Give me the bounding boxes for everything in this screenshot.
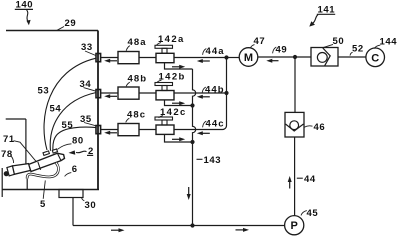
- connector 35: [96, 126, 101, 134]
- stand post: [25, 119, 27, 166]
- gun top knob rear: [52, 149, 57, 153]
- label 55: [62, 120, 74, 131]
- hose 6 outer: [27, 163, 58, 179]
- valve 142a cap: [155, 45, 173, 48]
- row c wire 142c to trunk bend: [174, 129, 223, 131]
- trunk vertical 44a-c: [223, 58, 227, 130]
- row a wire 142a to trunk: [174, 57, 227, 59]
- label 52: [352, 43, 364, 54]
- wire trunk to motor M: [227, 57, 240, 59]
- row a wall arrow: [104, 59, 117, 63]
- valve 50 seat chevron: [323, 48, 330, 66]
- label 80: [72, 135, 84, 146]
- leader 142a: [157, 43, 161, 46]
- label 6: [72, 164, 78, 175]
- svg-text:44: 44: [304, 174, 316, 185]
- leader 144: [374, 45, 380, 48]
- svg-text:46: 46: [314, 122, 326, 133]
- leader 71: [14, 141, 37, 162]
- vertical wire 44 valve 46 to pump P: [294, 137, 296, 216]
- valve 142b body: [156, 91, 174, 100]
- return b arrow: [172, 101, 185, 105]
- booth right wall: [97, 31, 99, 190]
- leader 34: [84, 88, 97, 92]
- junction dot 143 bottom: [190, 223, 194, 227]
- row b wire 142b to trunk: [174, 92, 227, 94]
- svg-text:44c: 44c: [206, 118, 225, 129]
- label 35: [80, 114, 92, 125]
- label 47: [254, 36, 266, 47]
- underline 2: [87, 154, 93, 156]
- svg-text:52: 52: [352, 43, 364, 54]
- label 34: [80, 79, 92, 90]
- gun tip ball: [4, 171, 9, 176]
- svg-text:144: 144: [380, 36, 398, 47]
- leader 45: [301, 211, 307, 216]
- cable 53: [44, 58, 95, 150]
- wire M to valve 50: [258, 56, 311, 58]
- svg-text:142a: 142a: [158, 34, 185, 45]
- label 45: [307, 208, 319, 219]
- underline 140: [15, 8, 33, 10]
- drain wire pedestal to bottom pipe: [72, 198, 74, 226]
- leader 48a: [126, 46, 130, 51]
- svg-text:30: 30: [85, 200, 97, 211]
- label 142a: [158, 34, 185, 45]
- leader 44b: [202, 87, 206, 93]
- vertical wire node49 to valve 46: [294, 57, 296, 112]
- junction dot return c: [190, 140, 194, 144]
- stand left edge: [1, 168, 3, 197]
- letter M: [244, 52, 253, 64]
- leader 5: [43, 180, 45, 198]
- leader 50: [323, 44, 333, 47]
- label 53: [38, 85, 50, 96]
- leader 48b: [126, 82, 130, 86]
- bottom pipe arrow 2: [236, 228, 250, 232]
- dash 143: [197, 158, 203, 160]
- return 142b down-right: [165, 100, 193, 106]
- return 142c down-right: [165, 134, 193, 142]
- leader 46: [304, 126, 312, 127]
- cable 54: [50, 93, 96, 151]
- bottom supply pipe: [73, 225, 285, 227]
- hose 6 drop to floor: [26, 178, 28, 190]
- valve 142c cap: [155, 117, 173, 120]
- arrow from 140 to booth: [26, 10, 30, 25]
- junction dot return b: [190, 103, 194, 107]
- svg-text:29: 29: [65, 18, 77, 29]
- label 50: [333, 36, 345, 47]
- connector 34: [96, 90, 101, 98]
- box 48b: [118, 87, 139, 99]
- wire 52 valve 50 to C: [338, 56, 366, 58]
- svg-text:143: 143: [204, 155, 222, 166]
- label 140: [16, 0, 34, 11]
- gun body divider: [38, 162, 41, 170]
- label 5: [40, 199, 46, 210]
- label 48b: [128, 73, 148, 84]
- row c trunk arrow: [197, 131, 210, 135]
- label 142b: [159, 71, 186, 82]
- svg-text:54: 54: [50, 103, 62, 114]
- label 141: [318, 5, 336, 16]
- leader 29: [57, 27, 64, 31]
- label 44c: [206, 118, 225, 129]
- label 44: [304, 174, 316, 185]
- junction dot trunk row a: [224, 55, 228, 59]
- svg-text:55: 55: [62, 120, 74, 131]
- label 46: [314, 122, 326, 133]
- dash 44: [297, 177, 303, 179]
- letter P: [291, 220, 298, 232]
- valve 142a body: [156, 53, 174, 62]
- svg-text:142c: 142c: [160, 107, 187, 118]
- label 48a: [128, 37, 147, 48]
- arrow from 141 pointing down-left: [309, 15, 318, 27]
- row b wire 48b to 142b: [139, 92, 156, 94]
- svg-text:142b: 142b: [159, 71, 186, 82]
- row c wall arrow: [104, 131, 117, 135]
- label 143: [204, 155, 222, 166]
- leader 47: [251, 45, 255, 48]
- valve 142b cap: [155, 83, 173, 86]
- label 49: [276, 44, 288, 55]
- label 44b: [205, 84, 225, 95]
- label 29: [65, 18, 77, 29]
- compressor C circle 144: [366, 48, 385, 67]
- leader 142b: [157, 80, 161, 82]
- label 44a: [206, 46, 225, 57]
- valve 142c body: [156, 125, 174, 134]
- svg-text:78: 78: [1, 149, 13, 160]
- check valve 50 box: [311, 48, 338, 67]
- label 54: [50, 103, 62, 114]
- leader 142c: [159, 116, 163, 118]
- label 71: [3, 134, 15, 145]
- gun rear bevel line: [57, 153, 61, 160]
- up arrow on wire 44: [288, 176, 292, 189]
- row c wire wall to 48c: [101, 129, 119, 131]
- box 48c: [118, 124, 139, 136]
- letter C: [371, 52, 379, 64]
- svg-text:49: 49: [276, 44, 288, 55]
- stand shelf: [6, 118, 26, 120]
- row c wire 48c to 142c: [139, 129, 156, 131]
- svg-text:48b: 48b: [128, 73, 148, 84]
- svg-text:53: 53: [38, 85, 50, 96]
- leader 33: [85, 51, 96, 56]
- junction dot trunk row b: [224, 91, 228, 95]
- gun nozzle tip box 78: [7, 166, 14, 176]
- return 142a down-right: [165, 63, 193, 69]
- svg-text:45: 45: [307, 208, 319, 219]
- row b trunk arrow: [197, 95, 210, 99]
- svg-text:47: 47: [254, 36, 266, 47]
- pump P circle 45: [285, 216, 304, 235]
- svg-text:80: 80: [72, 135, 84, 146]
- svg-text:50: 50: [333, 36, 345, 47]
- booth top wall 29: [6, 30, 98, 32]
- row a trunk arrow: [197, 59, 210, 63]
- leader 44a: [203, 49, 207, 55]
- valve 46 seat chevron: [286, 124, 304, 131]
- booth bottom wall: [3, 189, 100, 191]
- underline 141: [317, 13, 335, 15]
- gun nozzle: [12, 164, 30, 175]
- svg-text:M: M: [244, 52, 253, 64]
- leader 35: [84, 123, 96, 126]
- check valve 46 box: [285, 112, 304, 137]
- valve 142a stem: [162, 48, 167, 53]
- return line 143 with hops: [193, 69, 196, 226]
- motor M circle 47: [239, 48, 258, 67]
- leader 52: [350, 52, 353, 55]
- leader 49: [273, 47, 277, 53]
- gun top knob front: [43, 151, 49, 156]
- row a wire 48a to 142a: [139, 57, 156, 59]
- svg-text:71: 71: [3, 134, 15, 145]
- label 142c: [160, 107, 187, 118]
- leader 44c: [203, 121, 207, 127]
- junction dot node 49: [293, 55, 297, 59]
- leader 80: [58, 144, 72, 150]
- label 33: [81, 42, 93, 53]
- return c arrow: [172, 137, 185, 141]
- row b wall arrow: [104, 94, 117, 98]
- leader 78: [11, 156, 14, 164]
- valve 142b stem: [162, 86, 167, 91]
- spray gun 2 body: [28, 153, 64, 171]
- connector 33: [96, 54, 101, 62]
- leader 48c: [126, 118, 130, 122]
- cable 55: [53, 127, 96, 151]
- svg-text:48a: 48a: [128, 37, 147, 48]
- label 144: [380, 36, 398, 47]
- hose 6 inner: [27, 163, 58, 179]
- svg-text:C: C: [371, 52, 379, 64]
- valve 142c stem: [162, 120, 167, 125]
- svg-text:48c: 48c: [127, 109, 146, 120]
- return a arrow: [172, 65, 185, 69]
- label 2: [88, 146, 94, 157]
- label 48c: [127, 109, 146, 120]
- leader 6: [65, 173, 72, 177]
- down arrow on 143: [187, 187, 191, 200]
- label 30: [85, 200, 97, 211]
- arrow on 49 wire: [266, 59, 278, 63]
- row a wire wall to 48a: [101, 57, 119, 59]
- svg-text:44b: 44b: [205, 84, 225, 95]
- arrow to gun 2: [69, 150, 87, 154]
- pedestal 30: [59, 190, 83, 198]
- leader 30: [82, 198, 85, 201]
- box 48a: [118, 52, 139, 64]
- row b wire wall to 48b: [101, 92, 119, 94]
- svg-text:6: 6: [72, 164, 78, 175]
- svg-text:44a: 44a: [206, 46, 225, 57]
- svg-text:5: 5: [40, 199, 46, 210]
- bottom pipe arrow 1: [111, 228, 125, 232]
- valve 46 ball: [290, 121, 299, 130]
- valve 50 ball: [317, 53, 327, 63]
- svg-text:P: P: [291, 220, 298, 232]
- label 78: [1, 149, 13, 160]
